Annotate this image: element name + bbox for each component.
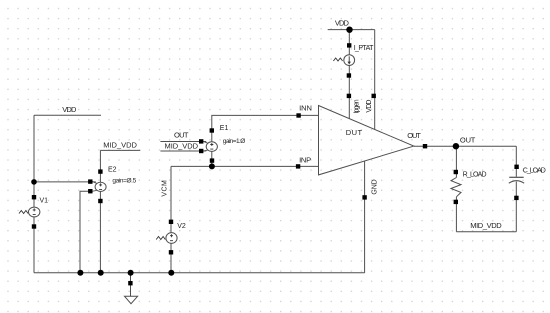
wire bbox=[211, 151, 213, 166]
wire bbox=[455, 197, 457, 232]
wire bbox=[33, 217, 35, 273]
pin INN of DUT bbox=[296, 104, 312, 118]
wire OUT net bbox=[414, 145, 517, 147]
node bus junction 4 bbox=[168, 270, 174, 276]
wire bbox=[348, 66, 350, 119]
resistor R_LOAD bbox=[451, 170, 487, 204]
net label MID_VDD (E2 net) bbox=[100, 149, 140, 151]
wire bbox=[455, 146, 457, 177]
pin VDD of DUT bbox=[366, 94, 376, 113]
svg-text:VCM: VCM bbox=[161, 180, 168, 197]
pin OUT of DUT bbox=[407, 131, 427, 148]
pin INP of DUT bbox=[296, 156, 311, 169]
current source I_PTAT bbox=[333, 43, 374, 78]
node OUT junction bbox=[453, 143, 459, 149]
net label VDD (top) bbox=[328, 29, 375, 31]
net label VDD (left) bbox=[34, 114, 101, 116]
svg-text:DUT: DUT bbox=[346, 128, 363, 137]
node V1/E2 junction bbox=[31, 179, 37, 185]
svg-text:OUT: OUT bbox=[407, 131, 421, 140]
capacitor C_LOAD bbox=[509, 165, 546, 200]
svg-text:MID_VDD: MID_VDD bbox=[103, 141, 137, 150]
svg-text:MID_VDD: MID_VDD bbox=[470, 221, 502, 230]
wire INN net bbox=[212, 115, 319, 141]
wire bbox=[348, 30, 350, 55]
net label OUT (E1 input) bbox=[160, 141, 206, 143]
node E1 output junction bbox=[209, 163, 215, 169]
wire bbox=[80, 191, 90, 272]
svg-text:OUT: OUT bbox=[174, 130, 189, 139]
wire MID_VDD bottom right bbox=[456, 231, 516, 233]
bottom bus wire bbox=[34, 272, 365, 274]
svg-text:V2: V2 bbox=[177, 223, 186, 230]
wire bbox=[170, 244, 172, 273]
node VDD top junction bbox=[346, 27, 352, 33]
wire VDD pin of DUT bbox=[374, 30, 376, 130]
op-amp U1 DUT bbox=[319, 106, 414, 175]
svg-text:R_LOAD: R_LOAD bbox=[463, 172, 487, 179]
wire bbox=[33, 115, 35, 207]
ground bbox=[125, 273, 138, 304]
voltage source V1 bbox=[19, 195, 48, 229]
svg-text:gain=Ø.5: gain=Ø.5 bbox=[112, 177, 136, 184]
svg-text:MID_VDD: MID_VDD bbox=[165, 141, 199, 150]
wire GND pin of DUT bbox=[364, 161, 366, 273]
svg-text:gain=1.Ø: gain=1.Ø bbox=[223, 138, 246, 145]
wire bbox=[99, 192, 101, 273]
wire INP net bbox=[171, 165, 319, 167]
svg-text:VDD: VDD bbox=[62, 105, 77, 114]
pin Ipgen of DUT bbox=[347, 94, 361, 114]
vcvs E1 bbox=[199, 125, 245, 163]
svg-text:V1: V1 bbox=[40, 197, 49, 204]
wire bbox=[515, 146, 517, 177]
wire VCM bbox=[170, 166, 172, 232]
svg-text:INN: INN bbox=[299, 104, 312, 113]
svg-text:Ipgen: Ipgen bbox=[354, 99, 361, 113]
svg-text:E2: E2 bbox=[108, 167, 117, 174]
voltage source V2 bbox=[156, 220, 186, 255]
node bus junction 2 bbox=[98, 270, 104, 276]
svg-text:GND: GND bbox=[372, 179, 379, 194]
svg-text:I_PTAT: I_PTAT bbox=[354, 45, 374, 52]
pin GND of DUT bbox=[362, 179, 378, 199]
net label MID_VDD (E1 input) bbox=[160, 150, 206, 152]
wire bbox=[515, 182, 517, 232]
wire bbox=[99, 150, 101, 182]
svg-text:OUT: OUT bbox=[460, 136, 476, 145]
svg-text:C_LOAD: C_LOAD bbox=[523, 168, 546, 175]
svg-text:INP: INP bbox=[299, 156, 311, 165]
node bus junction 3 bbox=[128, 270, 134, 276]
svg-text:VDD: VDD bbox=[335, 18, 350, 27]
svg-text:VDD: VDD bbox=[366, 100, 373, 113]
wire bbox=[34, 181, 96, 183]
node bus junction 1 bbox=[77, 270, 83, 276]
svg-text:E1: E1 bbox=[220, 125, 229, 132]
vcvs E2 bbox=[88, 167, 136, 204]
